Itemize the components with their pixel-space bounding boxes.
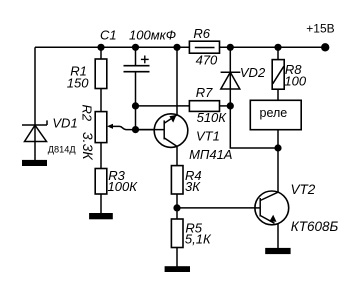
svg-text:R2: R2 — [80, 105, 95, 122]
svg-text:реле: реле — [260, 106, 288, 120]
svg-text:100К: 100К — [108, 179, 139, 194]
svg-text:3К: 3К — [185, 179, 201, 194]
svg-text:150: 150 — [67, 75, 89, 90]
svg-text:510К: 510К — [197, 110, 228, 125]
svg-text:R7: R7 — [196, 85, 213, 100]
svg-text:+15В: +15В — [306, 22, 334, 36]
svg-text:КТ608Б: КТ608Б — [291, 219, 339, 234]
svg-text:VT1: VT1 — [196, 129, 220, 144]
svg-text:100мкФ: 100мкФ — [129, 27, 176, 42]
svg-text:VD2: VD2 — [240, 65, 266, 80]
svg-text:VD1: VD1 — [52, 115, 77, 130]
svg-text:100: 100 — [284, 73, 306, 88]
svg-text:3.3К: 3.3К — [80, 132, 96, 160]
svg-text:Д814Д: Д814Д — [48, 144, 77, 154]
svg-text:470: 470 — [196, 53, 218, 68]
svg-text:VT2: VT2 — [291, 182, 316, 197]
svg-text:МП41А: МП41А — [189, 147, 232, 162]
svg-text:5,1К: 5,1К — [185, 232, 212, 247]
svg-text:C1: C1 — [100, 27, 117, 42]
svg-text:R6: R6 — [193, 26, 210, 41]
